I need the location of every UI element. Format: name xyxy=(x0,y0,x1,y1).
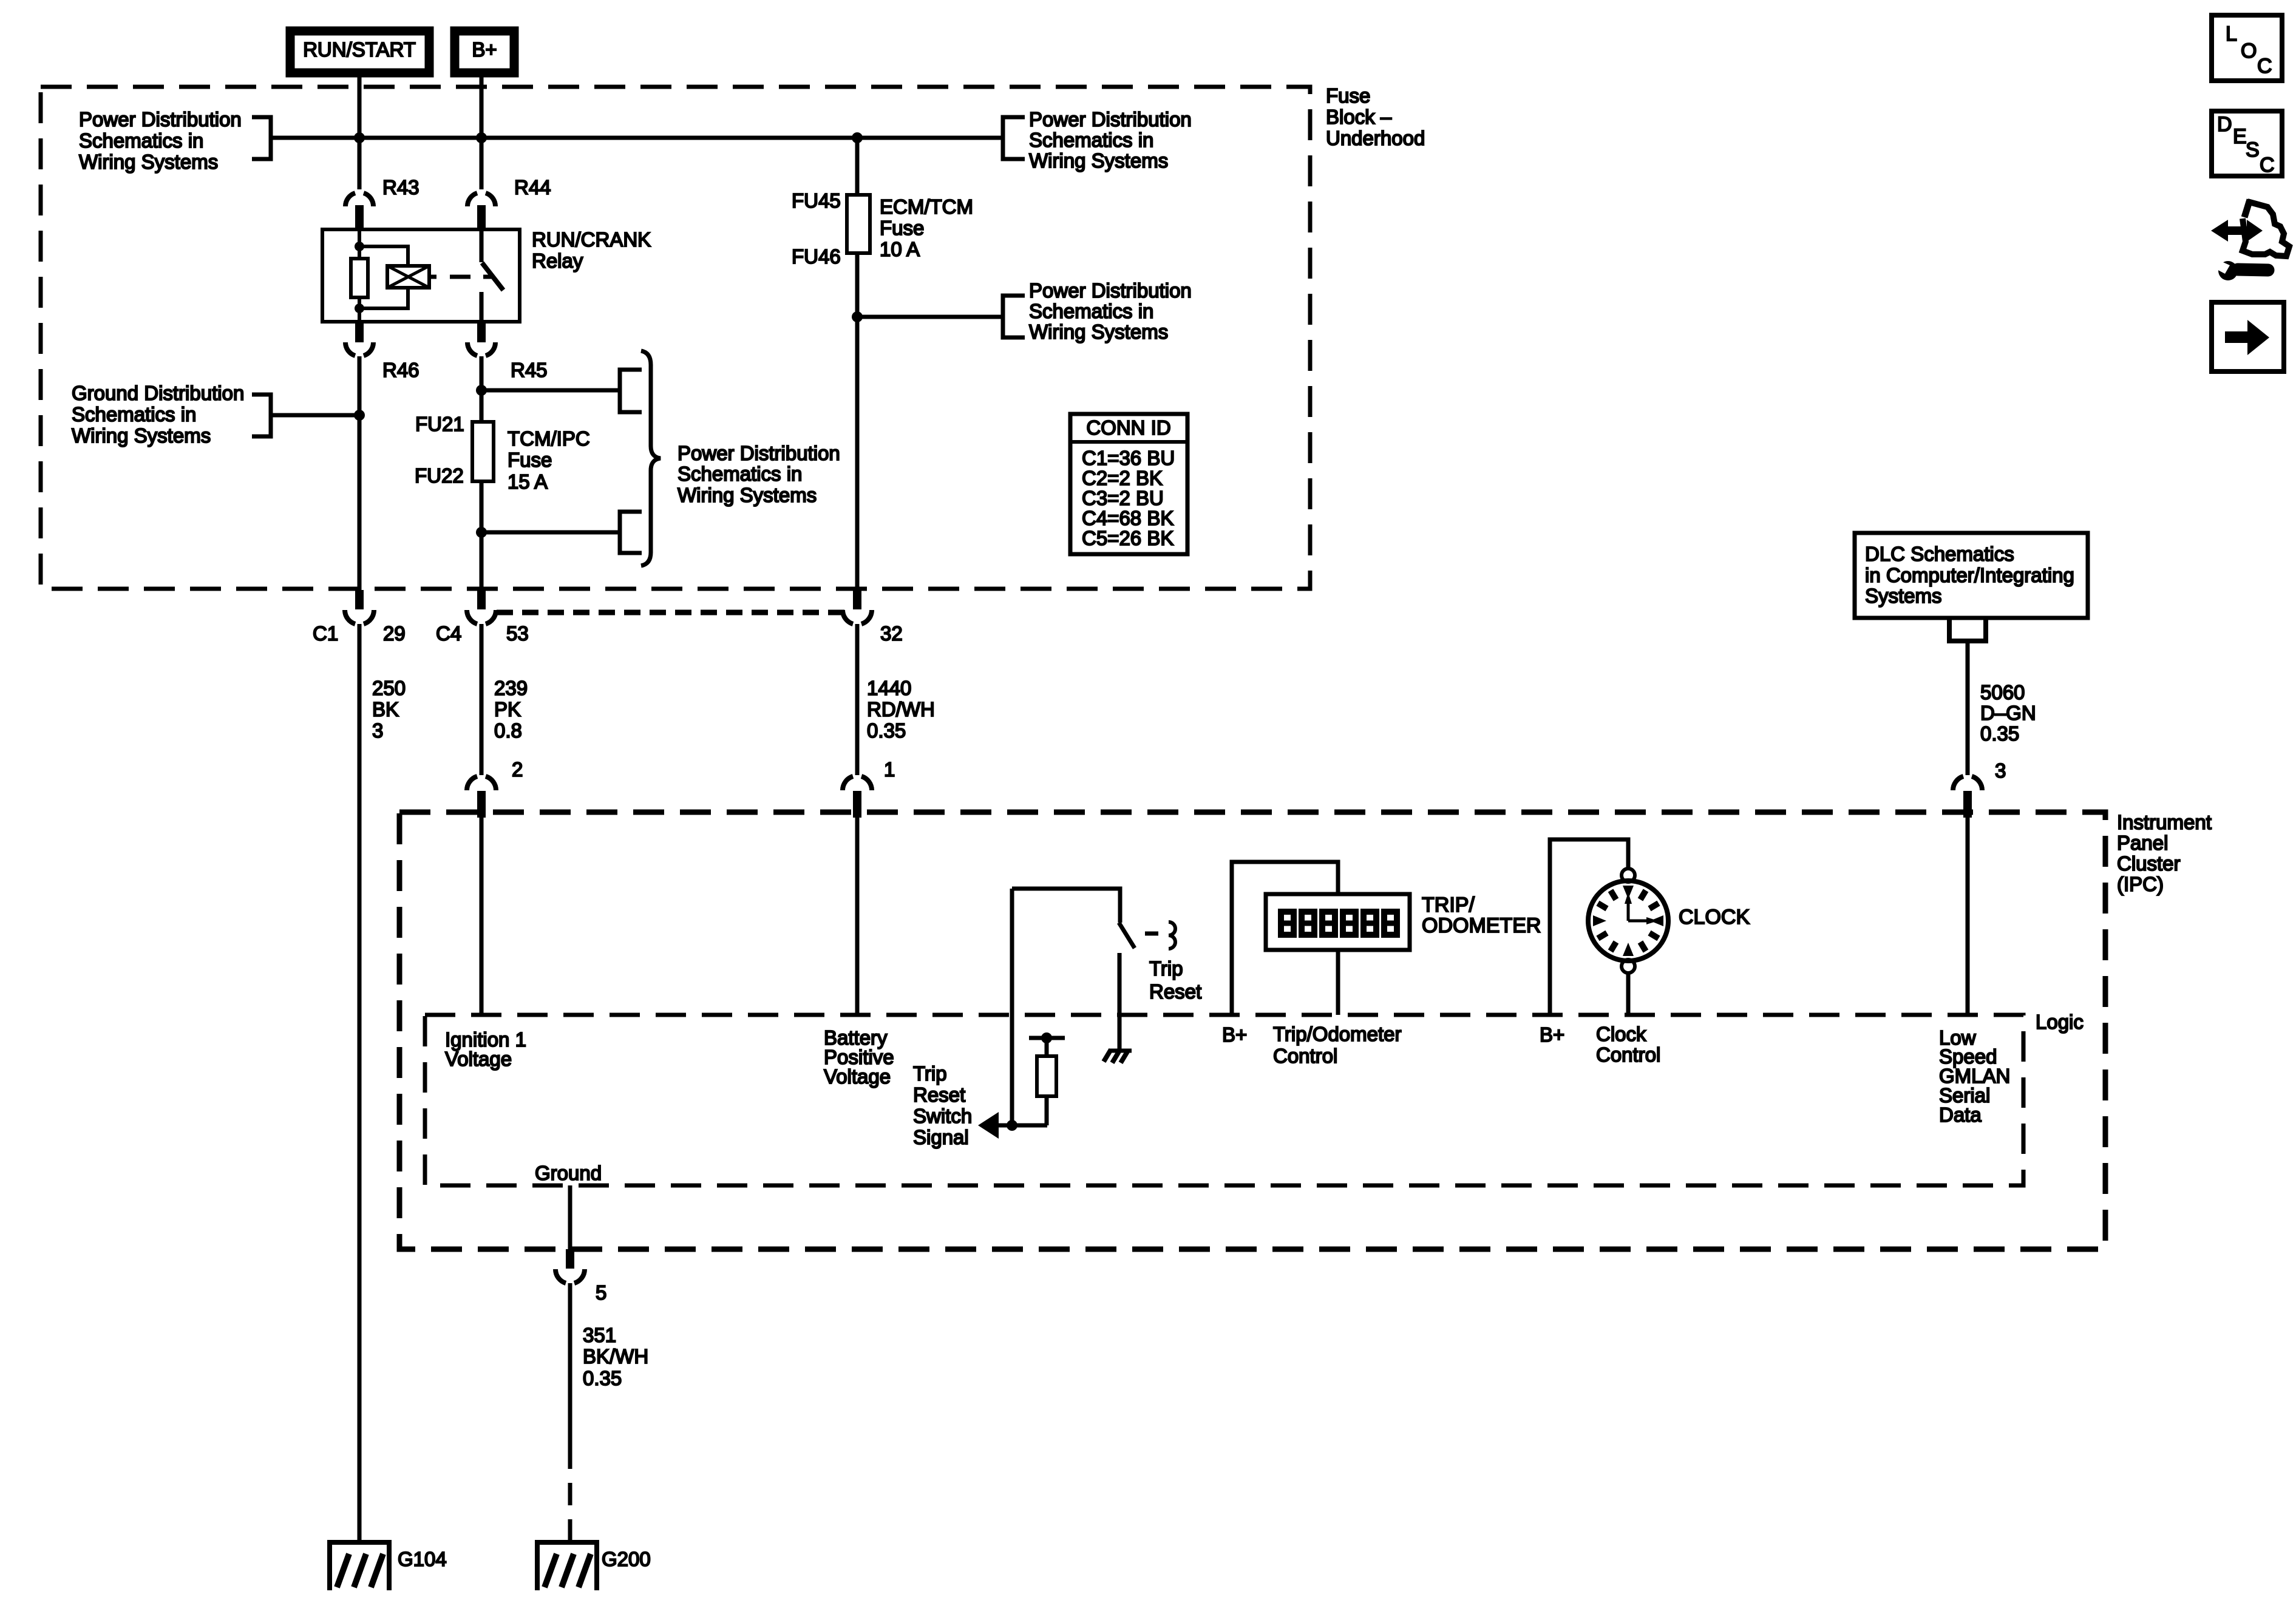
power distribution label right top xyxy=(1029,108,1192,172)
svg-text:Wiring Systems: Wiring Systems xyxy=(79,151,218,173)
ground wire IPC xyxy=(568,1185,572,1249)
DLC connector U xyxy=(1949,618,1986,641)
svg-text:Wiring Systems: Wiring Systems xyxy=(1029,149,1168,172)
clock hands xyxy=(1628,903,1647,921)
bracket right top xyxy=(1003,117,1025,159)
power distribution label right lower xyxy=(1029,279,1192,343)
svg-text:Block –: Block – xyxy=(1326,106,1392,128)
relay coil resistor xyxy=(358,229,361,322)
power distribution label left xyxy=(79,108,242,173)
relay switch xyxy=(480,229,484,262)
svg-text:Logic: Logic xyxy=(2036,1011,2084,1033)
wire FU46 branch xyxy=(857,315,1003,319)
fuse FU45/FU46 ECM/TCM xyxy=(847,195,870,253)
svg-text:R45: R45 xyxy=(511,359,548,381)
svg-text:Power Distribution: Power Distribution xyxy=(1029,108,1192,131)
wire left R46 down to C1 xyxy=(358,356,362,597)
connector C4 exit xyxy=(477,590,486,609)
clock terminals xyxy=(1622,869,1635,882)
trip reset signal wire xyxy=(1010,889,1014,1125)
svg-text:CLOCK: CLOCK xyxy=(1679,906,1750,929)
wire ground distribution xyxy=(271,413,359,418)
svg-text:Switch: Switch xyxy=(913,1105,972,1127)
trip reset switch xyxy=(1012,889,1120,923)
svg-text:R46: R46 xyxy=(382,359,419,381)
svg-text:DLC Schematics: DLC Schematics xyxy=(1865,543,2014,565)
svg-text:Fuse: Fuse xyxy=(1326,84,1370,107)
svg-text:Signal: Signal xyxy=(913,1126,969,1148)
svg-text:15 A: 15 A xyxy=(508,470,548,493)
svg-text:Schematics in: Schematics in xyxy=(79,129,203,152)
node FU46 branch xyxy=(852,311,863,322)
icon adjust hand wrench xyxy=(2211,200,2289,280)
svg-text:FU45: FU45 xyxy=(792,189,841,212)
wire bus horizontal xyxy=(271,136,1003,140)
arrow trip reset switch signal xyxy=(978,1112,999,1139)
svg-text:1: 1 xyxy=(884,758,895,781)
node bus-fu45 xyxy=(852,132,863,143)
bracket ground distribution xyxy=(252,395,271,436)
svg-text:351: 351 xyxy=(583,1324,616,1346)
bracket FU22 branch xyxy=(620,512,642,553)
svg-text:Wiring Systems: Wiring Systems xyxy=(678,484,817,506)
svg-text:R43: R43 xyxy=(382,176,419,198)
svg-text:PK: PK xyxy=(494,698,521,720)
svg-text:53: 53 xyxy=(506,622,529,645)
svg-text:E: E xyxy=(2233,125,2247,148)
node bus-runstart xyxy=(354,132,365,143)
svg-text:FU22: FU22 xyxy=(415,464,464,487)
svg-text:5060: 5060 xyxy=(1980,681,2025,703)
IPC logic inner dashed box xyxy=(425,1015,2023,1185)
ground G104 xyxy=(327,1540,392,1590)
relay actuator dashed link xyxy=(429,275,436,279)
svg-text:Trip/Odometer: Trip/Odometer xyxy=(1273,1023,1402,1045)
node bus-b+ xyxy=(476,132,487,143)
svg-text:Trip: Trip xyxy=(1149,957,1183,980)
connector R45 xyxy=(477,322,486,342)
svg-text:0.35: 0.35 xyxy=(583,1367,622,1389)
svg-text:CONN ID: CONN ID xyxy=(1086,416,1170,439)
ground G200 xyxy=(535,1540,599,1590)
svg-text:Voltage: Voltage xyxy=(445,1048,512,1070)
svg-text:Wiring Systems: Wiring Systems xyxy=(72,424,211,447)
wire 239 PK xyxy=(480,624,484,775)
svg-text:Underhood: Underhood xyxy=(1326,127,1425,149)
connector R44 xyxy=(467,193,495,206)
icon LOC xyxy=(2212,15,2282,81)
svg-text:2: 2 xyxy=(512,758,523,781)
clock face xyxy=(1588,881,1668,961)
svg-text:C1: C1 xyxy=(313,622,338,645)
svg-text:Schematics in: Schematics in xyxy=(1029,129,1153,151)
clock loop xyxy=(1550,839,1628,1015)
trip/odometer control loop xyxy=(1232,862,1338,1015)
svg-text:C1=36 BU: C1=36 BU xyxy=(1082,447,1175,469)
chassis ground trip reset xyxy=(1109,1049,1132,1053)
svg-text:Power Distribution: Power Distribution xyxy=(678,442,840,464)
svg-text:Fuse: Fuse xyxy=(508,449,552,471)
IPC label xyxy=(2117,811,2212,895)
svg-text:C: C xyxy=(2260,154,2275,177)
fuse FU21/FU22 TCM/IPC xyxy=(472,422,494,481)
bracket R45 branch xyxy=(620,370,642,412)
svg-text:G104: G104 xyxy=(398,1548,447,1570)
RUN/START terminal box xyxy=(290,31,429,73)
svg-text:Voltage: Voltage xyxy=(824,1065,891,1088)
bracket right lower xyxy=(1003,296,1025,337)
svg-text:239: 239 xyxy=(494,677,528,699)
wire R45 branch xyxy=(481,388,620,393)
svg-text:0.35: 0.35 xyxy=(867,719,906,742)
connector R43 xyxy=(345,193,373,206)
svg-text:in Computer/Integrating: in Computer/Integrating xyxy=(1865,564,2074,586)
svg-text:0.8: 0.8 xyxy=(494,719,522,742)
trip/odometer display xyxy=(1266,894,1410,950)
svg-text:S: S xyxy=(2246,138,2260,161)
svg-text:Schematics in: Schematics in xyxy=(1029,300,1153,322)
svg-text:Clock: Clock xyxy=(1596,1023,1646,1045)
CONN ID table xyxy=(1070,414,1187,554)
svg-text:C2=2 BK: C2=2 BK xyxy=(1082,467,1163,489)
wire 5060 D-GN xyxy=(1966,641,1970,775)
DLC schematics box xyxy=(1855,533,2088,618)
wire B+ down xyxy=(480,73,484,189)
node R45 branch xyxy=(476,385,487,396)
fuse block label xyxy=(1326,84,1425,149)
wire RUN/START down xyxy=(358,73,362,189)
connector 32 exit xyxy=(853,590,861,609)
svg-text:Relay: Relay xyxy=(532,249,583,272)
svg-text:Reset: Reset xyxy=(1149,980,1201,1003)
svg-text:Systems: Systems xyxy=(1865,585,1942,607)
svg-text:C3=2 BU: C3=2 BU xyxy=(1082,487,1164,509)
svg-text:0.35: 0.35 xyxy=(1980,722,2019,745)
wire 1440 RD/WH xyxy=(855,624,860,775)
svg-text:TRIP/: TRIP/ xyxy=(1422,893,1475,917)
svg-text:C: C xyxy=(2257,55,2272,78)
svg-text:Ground Distribution: Ground Distribution xyxy=(72,382,244,404)
svg-text:TCM/IPC: TCM/IPC xyxy=(508,427,590,450)
fuse block underhood dashed box xyxy=(41,87,1310,589)
svg-text:Control: Control xyxy=(1273,1045,1337,1067)
svg-text:O: O xyxy=(2241,39,2257,63)
svg-text:ODOMETER: ODOMETER xyxy=(1422,914,1541,937)
relay RUN/CRANK box xyxy=(322,229,520,322)
svg-text:Schematics in: Schematics in xyxy=(678,463,802,485)
svg-text:B+: B+ xyxy=(1540,1023,1564,1046)
brace power distribution xyxy=(641,351,661,566)
wire FU22 branch xyxy=(481,531,620,535)
ground distribution label left xyxy=(72,382,244,447)
svg-text:FU21: FU21 xyxy=(415,413,464,435)
wire right R45 down xyxy=(480,356,484,597)
svg-text:250: 250 xyxy=(372,677,406,699)
node FU22 branch xyxy=(476,527,487,538)
node ground-dist xyxy=(354,410,365,421)
connector line C4 dotted xyxy=(497,610,845,615)
svg-text:32: 32 xyxy=(880,622,903,645)
connector C1 exit xyxy=(355,590,364,609)
svg-text:1440: 1440 xyxy=(867,677,911,699)
connector R46 xyxy=(355,322,364,342)
svg-text:(IPC): (IPC) xyxy=(2117,873,2164,895)
connector 5 exit xyxy=(555,1269,585,1283)
pullup resistor xyxy=(1029,1036,1065,1040)
relay coil loop xyxy=(359,246,408,308)
svg-text:BK/WH: BK/WH xyxy=(583,1345,648,1368)
svg-text:Reset: Reset xyxy=(913,1083,965,1106)
svg-text:L: L xyxy=(2226,22,2237,46)
wire 250 BK xyxy=(358,624,362,1542)
svg-text:G200: G200 xyxy=(602,1548,651,1570)
svg-text:C5=26 BK: C5=26 BK xyxy=(1082,527,1173,549)
svg-text:Fuse: Fuse xyxy=(880,217,924,239)
svg-text:BK: BK xyxy=(372,698,399,720)
bracket power distribution left xyxy=(252,117,271,159)
svg-text:Power Distribution: Power Distribution xyxy=(79,108,242,131)
low speed gmlan label xyxy=(1939,1026,2010,1126)
svg-text:Trip: Trip xyxy=(913,1062,947,1085)
svg-text:3: 3 xyxy=(372,719,383,742)
svg-text:Control: Control xyxy=(1596,1043,1660,1066)
svg-text:Power Distribution: Power Distribution xyxy=(1029,279,1192,302)
svg-text:FU46: FU46 xyxy=(792,245,841,268)
svg-text:C4=68 BK: C4=68 BK xyxy=(1082,507,1173,529)
svg-text:RUN/CRANK: RUN/CRANK xyxy=(532,228,651,251)
svg-text:10 A: 10 A xyxy=(880,238,920,260)
svg-text:Panel: Panel xyxy=(2117,832,2168,854)
svg-text:C4: C4 xyxy=(436,622,461,645)
svg-text:Instrument: Instrument xyxy=(2117,811,2212,833)
svg-text:RUN/START: RUN/START xyxy=(303,38,416,61)
svg-text:B+: B+ xyxy=(472,38,497,61)
svg-text:Schematics in: Schematics in xyxy=(72,403,196,425)
svg-text:RD/WH: RD/WH xyxy=(867,698,935,720)
wire FU45 down from bus xyxy=(855,138,860,597)
relay solenoid X box xyxy=(387,266,429,288)
svg-text:Ground: Ground xyxy=(535,1162,602,1184)
svg-text:Cluster: Cluster xyxy=(2117,852,2181,875)
svg-text:D–GN: D–GN xyxy=(1980,702,2036,724)
svg-text:B+: B+ xyxy=(1222,1023,1247,1046)
svg-text:3: 3 xyxy=(1995,759,2006,782)
IPC dashed box xyxy=(399,812,2105,1249)
switch spring symbol xyxy=(1169,922,1175,949)
svg-text:Wiring Systems: Wiring Systems xyxy=(1029,320,1168,343)
svg-text:29: 29 xyxy=(383,622,406,645)
trip reset switch signal label xyxy=(913,1062,972,1148)
B+ terminal box xyxy=(455,31,514,73)
svg-text:5: 5 xyxy=(596,1281,606,1304)
icon DESC xyxy=(2212,111,2282,177)
svg-text:Data: Data xyxy=(1939,1103,1982,1126)
svg-text:R44: R44 xyxy=(514,176,551,198)
icon arrow box xyxy=(2212,302,2284,371)
svg-text:D: D xyxy=(2217,113,2232,136)
svg-text:ECM/TCM: ECM/TCM xyxy=(880,195,973,218)
